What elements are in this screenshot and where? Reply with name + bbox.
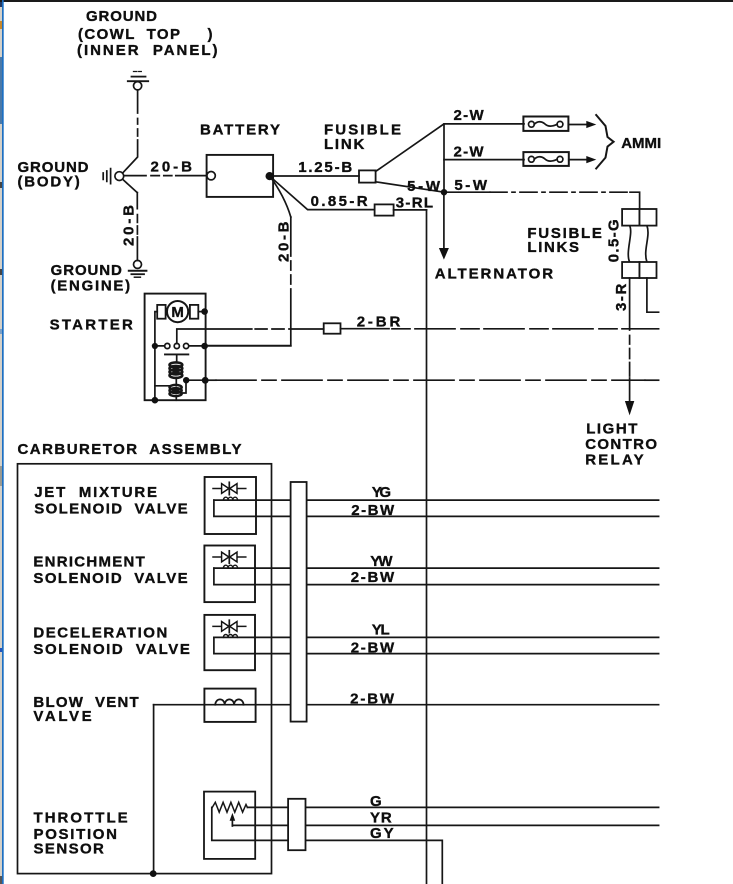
svg-text:ALTERNATOR: ALTERNATOR	[435, 265, 554, 282]
svg-text:SENSOR: SENSOR	[34, 840, 105, 857]
svg-text:3-RL: 3-RL	[396, 195, 433, 212]
svg-text:(COWL TOP: (COWL TOP	[78, 26, 180, 43]
svg-text:CARBURETOR ASSEMBLY: CARBURETOR ASSEMBLY	[18, 441, 242, 458]
svg-text:2-BW: 2-BW	[351, 502, 395, 519]
svg-text:YG: YG	[372, 484, 391, 501]
svg-text:(INNER PANEL): (INNER PANEL)	[77, 42, 218, 59]
svg-text:YR: YR	[370, 809, 392, 826]
svg-text:LINK: LINK	[324, 136, 364, 153]
svg-text:RELAY: RELAY	[585, 451, 644, 468]
svg-text:VALVE: VALVE	[33, 708, 91, 725]
svg-text:LIGHT: LIGHT	[586, 420, 637, 437]
svg-text:0.5-G: 0.5-G	[606, 219, 623, 262]
svg-text:YL: YL	[372, 621, 390, 638]
svg-text:ENRICHMENT: ENRICHMENT	[33, 554, 144, 571]
svg-text:(ENGINE): (ENGINE)	[51, 278, 131, 295]
svg-text:GROUND: GROUND	[86, 8, 157, 25]
svg-text:): )	[208, 26, 213, 43]
svg-text:M: M	[171, 304, 184, 321]
svg-text:2-BW: 2-BW	[351, 569, 395, 586]
svg-text:GROUND: GROUND	[51, 262, 122, 279]
svg-text:AMMI: AMMI	[621, 135, 661, 152]
svg-text:1.25-B: 1.25-B	[298, 159, 352, 176]
svg-text:2-W: 2-W	[454, 107, 485, 124]
svg-text:G: G	[370, 793, 382, 810]
svg-text:DECELERATION: DECELERATION	[33, 624, 167, 641]
svg-text:JET MIXTURE: JET MIXTURE	[34, 484, 157, 501]
svg-text:2-BW: 2-BW	[350, 691, 395, 708]
svg-text:2-BW: 2-BW	[351, 639, 395, 656]
svg-text:2-BR: 2-BR	[357, 313, 401, 330]
svg-text:LINKS: LINKS	[527, 239, 579, 256]
svg-text:BATTERY: BATTERY	[200, 121, 280, 138]
svg-text:THROTTLE: THROTTLE	[34, 809, 128, 826]
svg-text:3-R: 3-R	[613, 284, 630, 311]
svg-text:YW: YW	[370, 553, 393, 570]
svg-text:2-W: 2-W	[454, 143, 485, 160]
svg-text:SOLENOID VALVE: SOLENOID VALVE	[34, 501, 188, 518]
